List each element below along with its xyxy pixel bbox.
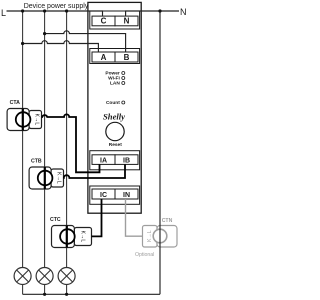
LED LAN	[110, 81, 125, 87]
current transformer CTN (optional, grey)	[135, 218, 177, 258]
lamp E3	[58, 268, 75, 285]
svg-text:N: N	[124, 17, 130, 26]
current transformer CTB	[29, 159, 63, 190]
terminal IA	[92, 155, 115, 165]
svg-text:LAN: LAN	[110, 81, 120, 87]
wire phase branch A vertical	[22, 11, 24, 268]
svg-text:CTB: CTB	[31, 159, 42, 165]
junction dot N wire	[158, 9, 161, 12]
junction dot bus lamp E2	[43, 293, 46, 296]
svg-text:K→L: K→L	[33, 114, 39, 126]
terminal IC	[92, 189, 115, 199]
junction dot A sense tap	[21, 42, 24, 45]
svg-text:K→L: K→L	[80, 231, 86, 243]
wire lamp E2 bottom stub	[44, 285, 46, 295]
svg-text:N: N	[180, 7, 187, 17]
junction dot L/branch A	[21, 9, 24, 12]
junction dot B sense tap	[43, 32, 46, 35]
wire bottom neutral bus	[23, 293, 160, 295]
current transformer CTC	[50, 217, 92, 248]
terminal IN	[115, 189, 138, 199]
svg-text:K→L: K→L	[55, 172, 61, 184]
wire lamp E1 bottom stub	[22, 285, 24, 295]
current transformer CTA	[7, 100, 41, 131]
svg-text:IA: IA	[100, 158, 107, 165]
svg-text:L: L	[1, 8, 6, 18]
wire terminal IN to CTN (grey)	[126, 199, 143, 236]
svg-text:CTA: CTA	[10, 100, 21, 106]
svg-text:A: A	[101, 53, 107, 62]
junction dot L/branch B	[43, 9, 46, 12]
svg-text:Optional: Optional	[135, 252, 154, 258]
svg-text:IC: IC	[100, 192, 107, 199]
terminal A	[92, 52, 115, 62]
svg-text:CTN: CTN	[162, 218, 173, 224]
svg-text:Shelly: Shelly	[103, 111, 125, 121]
wire terminal N to mains N	[126, 11, 179, 16]
wire lamp E3 bottom stub	[66, 285, 68, 295]
terminal C	[92, 16, 115, 26]
wire CTC K-L output to terminal IC	[92, 199, 102, 236]
reset button	[106, 122, 124, 148]
LED Wi-Fi	[108, 76, 125, 82]
wire CTA K-L output to terminal IA (hops over B and C wires)	[42, 114, 100, 172]
terminal IB	[115, 155, 138, 165]
LED Count	[106, 100, 125, 106]
svg-text:Device power supply: Device power supply	[24, 3, 89, 10]
svg-text:IB: IB	[123, 158, 130, 165]
svg-text:Count: Count	[106, 100, 120, 106]
wire phase B sense to terminal B (hops over C wire)	[45, 31, 126, 52]
svg-text:CTC: CTC	[50, 217, 61, 223]
terminal row IA IB outer box	[90, 151, 140, 170]
terminal row IC IN outer box	[90, 186, 140, 204]
svg-text:K→L: K→L	[147, 230, 153, 242]
svg-text:B: B	[124, 53, 130, 62]
device U1 Shelly Pro 3EM body	[88, 2, 141, 213]
LED Power	[105, 71, 124, 77]
terminal row C N outer box	[90, 11, 140, 29]
terminal N	[115, 16, 138, 26]
svg-text:IN: IN	[123, 192, 130, 199]
wire phase A sense to terminal A (hops over B and C wires)	[23, 41, 99, 52]
wire neutral vertical down right side	[159, 11, 161, 294]
wire phase branch C vertical	[66, 11, 68, 268]
svg-text:C: C	[101, 17, 107, 26]
junction dot L/branch C	[65, 9, 68, 12]
wire phase branch B vertical	[44, 11, 46, 268]
wire CTB K-L output to terminal IB (hops over C wire)	[64, 164, 126, 178]
terminal row A B outer box	[90, 49, 140, 64]
wire L to terminal C	[7, 11, 103, 16]
lamp E2	[36, 268, 53, 285]
terminal B	[115, 52, 138, 62]
svg-text:Reset: Reset	[109, 142, 122, 148]
junction dot bus lamp E3	[65, 293, 68, 296]
lamp E1	[14, 268, 31, 285]
